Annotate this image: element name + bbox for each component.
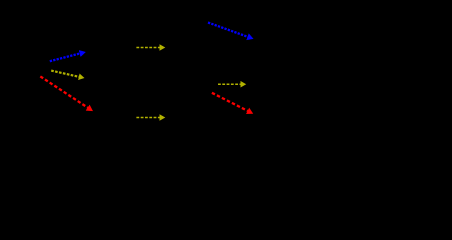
blue dashed arrow, left group (up-right) — [50, 54, 80, 62]
red dashed arrow, right group (down-right) — [212, 93, 248, 111]
yellow dashed arrow, middle bottom (horizontal) — [136, 117, 159, 119]
yellow dashed arrow, left group (slightly down-right) — [51, 71, 79, 77]
red dashed arrow, left group (down-right) — [40, 76, 88, 107]
diagram canvas — [0, 0, 452, 132]
yellow dashed arrow, middle top (horizontal) — [136, 47, 159, 49]
yellow dashed arrow, right group (horizontal) — [218, 83, 241, 85]
blue dashed arrow, right group (down-right) — [208, 23, 248, 37]
